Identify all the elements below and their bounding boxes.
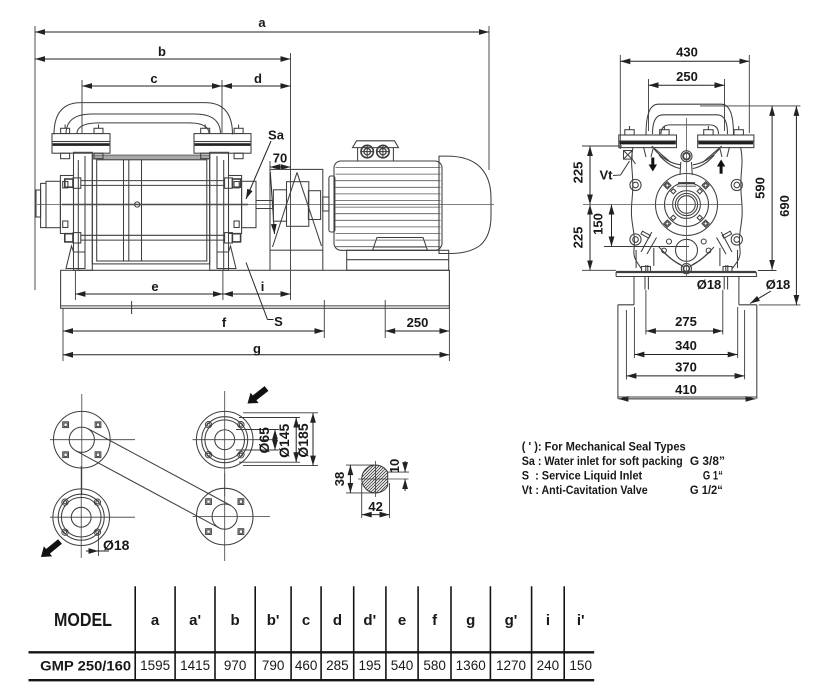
svg-text:d: d: [333, 612, 342, 629]
svg-text:GMP 250/160: GMP 250/160: [40, 659, 131, 674]
svg-text:590: 590: [753, 177, 768, 199]
svg-text:Ø18: Ø18: [697, 277, 722, 292]
svg-text:790: 790: [262, 658, 285, 673]
svg-text:1360: 1360: [456, 658, 486, 673]
svg-text:Ø18: Ø18: [103, 537, 130, 553]
svg-text:b': b': [267, 612, 280, 629]
svg-text:e: e: [151, 279, 158, 294]
svg-text:S: S: [274, 314, 283, 329]
svg-text:970: 970: [224, 658, 247, 673]
svg-text:580: 580: [423, 658, 446, 673]
svg-text:f: f: [222, 315, 227, 330]
svg-text:i': i': [577, 612, 585, 629]
svg-text:225: 225: [571, 162, 586, 184]
svg-text:340: 340: [675, 338, 697, 353]
svg-text:G 3/8”: G 3/8”: [690, 454, 725, 468]
svg-text:g: g: [253, 341, 261, 356]
svg-text:Sa : Water inlet for soft pack: Sa : Water inlet for soft packing: [522, 454, 683, 468]
svg-text:S : Service Liquid Inlet: S : Service Liquid Inlet: [522, 469, 643, 483]
svg-text:Vt : Anti-Cavitation Valve: Vt : Anti-Cavitation Valve: [522, 483, 648, 497]
svg-text:150: 150: [591, 213, 606, 235]
svg-text:1415: 1415: [180, 658, 210, 673]
svg-text:Ø145: Ø145: [276, 423, 292, 457]
svg-text:i: i: [546, 612, 550, 629]
svg-text:( ' ): For Mechanical Seal Typ: ( ' ): For Mechanical Seal Types: [522, 440, 686, 454]
svg-text:410: 410: [675, 382, 697, 397]
svg-text:b: b: [158, 44, 166, 59]
svg-text:1270: 1270: [496, 658, 526, 673]
svg-text:MODEL: MODEL: [54, 610, 112, 630]
svg-text:c: c: [302, 612, 310, 629]
svg-text:e: e: [398, 612, 406, 629]
svg-text:Vt: Vt: [600, 168, 614, 183]
svg-text:370: 370: [675, 360, 697, 375]
svg-text:42: 42: [368, 499, 382, 514]
svg-text:a': a': [189, 612, 201, 629]
svg-text:38: 38: [332, 472, 347, 486]
svg-text:250: 250: [676, 69, 698, 84]
svg-text:225: 225: [571, 227, 586, 249]
svg-text:150: 150: [569, 658, 592, 673]
svg-text:285: 285: [326, 658, 349, 673]
svg-text:195: 195: [359, 658, 382, 673]
svg-text:430: 430: [676, 45, 698, 60]
svg-text:70: 70: [273, 151, 287, 166]
svg-text:275: 275: [675, 314, 697, 329]
svg-text:c: c: [150, 71, 157, 86]
svg-text:b: b: [231, 612, 240, 629]
svg-text:690: 690: [777, 195, 792, 217]
svg-text:460: 460: [295, 658, 318, 673]
svg-text:Ø18: Ø18: [766, 277, 791, 292]
svg-text:i: i: [261, 279, 265, 294]
svg-text:1595: 1595: [140, 658, 170, 673]
svg-text:Ø65: Ø65: [256, 427, 272, 454]
svg-text:10: 10: [387, 459, 402, 473]
svg-text:a: a: [151, 612, 160, 629]
svg-text:250: 250: [407, 315, 429, 330]
svg-text:d: d: [254, 71, 262, 86]
svg-text:g': g': [505, 612, 518, 629]
svg-text:Sa: Sa: [268, 128, 285, 143]
svg-text:g: g: [466, 612, 475, 629]
svg-text:a: a: [258, 15, 266, 30]
svg-text:G 1/2“: G 1/2“: [690, 483, 723, 497]
svg-text:d': d': [363, 612, 376, 629]
svg-text:G 1“: G 1“: [703, 469, 723, 483]
svg-text:240: 240: [537, 658, 560, 673]
svg-text:540: 540: [391, 658, 414, 673]
svg-text:f: f: [432, 612, 438, 629]
svg-text:Ø185: Ø185: [295, 423, 311, 457]
